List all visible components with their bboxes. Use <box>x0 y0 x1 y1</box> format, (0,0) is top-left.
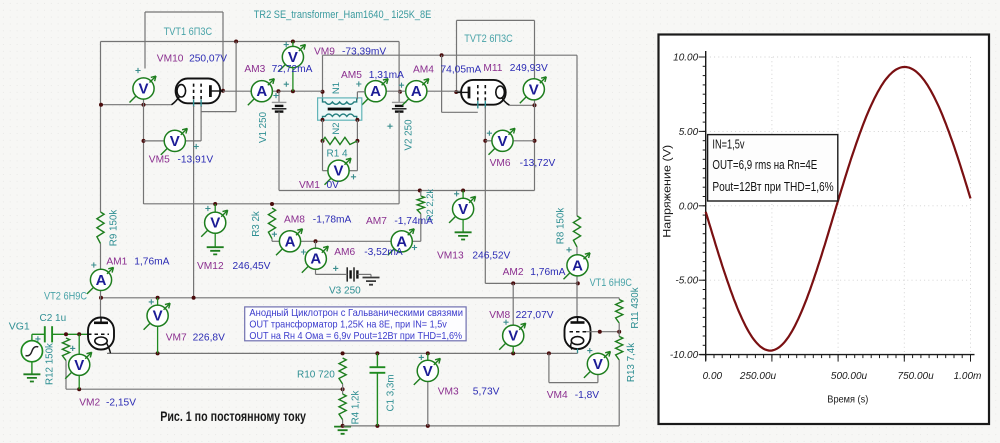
wire: left output bus y=297.8 <box>101 297 619 299</box>
wire: VM9 top stem <box>292 42 294 47</box>
svg-text:A: A <box>96 272 107 289</box>
node: N2 left <box>321 118 325 122</box>
node: grid wire <box>598 330 602 334</box>
node: V1 top <box>276 89 280 93</box>
voltmeter VM8 <box>499 323 526 350</box>
battery V2 250 <box>392 92 407 112</box>
wire: V2 bottom drop <box>398 112 400 204</box>
wire: VM5 right lead to g pin <box>185 140 201 142</box>
wire: AM8 to AM7 <box>301 240 392 242</box>
node: R1 left <box>321 139 325 143</box>
wire: VM10 bottom drop to rail <box>143 99 145 204</box>
wire: V1 bottom drop <box>278 112 280 191</box>
svg-text:R3 2k: R3 2k <box>251 211 262 237</box>
wire: M11 to TVT2 plate <box>456 20 458 92</box>
oscilloscope chart frame <box>659 35 990 425</box>
svg-text:1.00m: 1.00m <box>954 371 982 382</box>
voltmeter VM10 <box>130 76 157 103</box>
wire: VG1 ground stem <box>31 362 33 374</box>
resistor R12 150k <box>62 338 69 361</box>
svg-text:-73,39mV: -73,39mV <box>342 47 386 58</box>
svg-text:750.00u: 750.00u <box>898 371 935 382</box>
wire: TVT1 cathode link y=104.7 <box>101 104 172 106</box>
node: VM9 top on B+ rail <box>291 40 295 44</box>
vacuum tube VT2 (6N9S, driver) <box>88 318 114 354</box>
svg-text:1,31mA: 1,31mA <box>369 70 404 81</box>
ground at V3 <box>363 278 380 285</box>
wire: VM3 bottom stem <box>427 382 429 426</box>
svg-text:-3,52mA: -3,52mA <box>364 247 403 258</box>
svg-text:VM13: VM13 <box>437 251 464 262</box>
node: VM3 top <box>426 351 430 355</box>
svg-text:V3 250: V3 250 <box>329 286 361 297</box>
capacitor C1 3,3m <box>370 367 386 373</box>
svg-text:TVT1 6П3С: TVT1 6П3С <box>164 26 213 38</box>
svg-text:A: A <box>411 83 422 100</box>
wire: VT1 grid to R11/R13 node <box>586 331 619 333</box>
svg-text:72,72mA: 72,72mA <box>272 64 313 75</box>
wire: VM5 left lead <box>144 140 165 142</box>
wire: TVT2 cathode drop to V1 rail <box>534 100 536 191</box>
svg-text:A: A <box>285 233 296 250</box>
wire: TVT2 cathode to M11 <box>509 104 535 106</box>
svg-text:500.00u: 500.00u <box>831 371 868 382</box>
wire: VT2 cathode exit <box>107 352 110 354</box>
svg-text:AM7: AM7 <box>366 216 387 227</box>
svg-text:TVT2 6П3С: TVT2 6П3С <box>464 33 513 45</box>
svg-text:249,93V: 249,93V <box>510 63 548 74</box>
ammeter AM2 <box>564 253 591 279</box>
voltmeter VM4 <box>584 351 611 378</box>
voltmeter VM6 <box>489 128 516 155</box>
vacuum tube TVT1 (6P3S, output) <box>172 79 224 108</box>
note box: amplifier summary <box>245 307 466 342</box>
wire: AM4 to TVT2 plate <box>427 90 468 92</box>
node: AM2 bottom <box>576 281 580 285</box>
svg-text:N2: N2 <box>331 122 342 134</box>
svg-text:VT1 6H9C: VT1 6H9C <box>590 277 632 289</box>
wire: VM8 top stem <box>512 283 514 325</box>
chart gridlines <box>706 57 971 355</box>
svg-text:VM10: VM10 <box>157 54 184 65</box>
wire: cathode bus y=353.4 <box>108 352 578 354</box>
voltmeter VM7 <box>144 303 171 330</box>
voltmeter VM13 <box>449 196 476 223</box>
svg-text:1,76mA: 1,76mA <box>134 257 169 268</box>
voltmeter VM3 <box>414 358 441 385</box>
wire: R3 to AM8 <box>271 239 273 242</box>
svg-text:V: V <box>593 356 603 373</box>
node: V2 top / anode row junction <box>398 90 402 94</box>
node: VM2 top <box>77 332 81 336</box>
wire: C1 top lead <box>376 353 378 366</box>
wire: TVT1 plate rail y=55 <box>323 54 578 56</box>
node: AM1 bottom / VT2 plate <box>99 296 103 300</box>
node: R11/R13 junction <box>617 330 621 334</box>
svg-text:C2 1u: C2 1u <box>40 313 67 324</box>
svg-text:V1 250: V1 250 <box>258 111 269 143</box>
vacuum tube VT1 (6N9S, driver) <box>565 317 591 353</box>
svg-text:V: V <box>497 133 507 150</box>
wire: VM13 ground stem <box>462 220 464 232</box>
svg-text:V: V <box>210 215 220 232</box>
ground below VM13 <box>455 232 472 239</box>
svg-text:VM4: VM4 <box>547 390 568 401</box>
wire: AM2 to VT1 plate <box>576 276 578 318</box>
node: VM13 top <box>461 189 465 193</box>
wire: top B+ rail (TVT2 plate node) <box>101 41 400 43</box>
svg-text:VG1: VG1 <box>9 320 30 332</box>
svg-text:A: A <box>310 251 321 268</box>
svg-text:OUT трансформатор 1,25K на 8Е,: OUT трансформатор 1,25K на 8Е, при IN= 1… <box>249 319 447 331</box>
wire: VM6 right lead <box>513 140 535 142</box>
svg-text:250,07V: 250,07V <box>189 54 227 65</box>
wire: VG1 to C2 <box>32 333 44 335</box>
node: TVT2 g2 tap <box>440 53 444 57</box>
svg-text:R4 1,2k: R4 1,2k <box>351 391 362 425</box>
wire: N1 to AM5 <box>357 91 365 93</box>
svg-text:R12 150k: R12 150k <box>45 343 56 385</box>
wire: M11 + lead <box>534 20 536 78</box>
wire: V3 to ground <box>357 273 371 275</box>
wire: TVT1 g2 link <box>201 111 236 113</box>
chart axes <box>705 51 707 361</box>
wire: AM7 to R2 <box>420 214 422 242</box>
node: R2 top <box>418 189 422 193</box>
wire: VM1 left drop <box>322 141 324 171</box>
wire: R8 to AM2 <box>576 247 578 255</box>
ammeter AM6 <box>302 246 329 273</box>
svg-text:C1 3,3m: C1 3,3m <box>386 374 397 411</box>
svg-text:VM5: VM5 <box>149 155 170 166</box>
wire: VM4 loop bottom <box>549 382 598 384</box>
wire: N1 left pin <box>322 55 324 99</box>
wire: left drop to R9 <box>100 42 102 213</box>
svg-text:R13 7,4k: R13 7,4k <box>626 343 637 382</box>
wire: VM1 right lead <box>349 170 357 172</box>
svg-text:AM2: AM2 <box>503 267 524 278</box>
wire: VM4 loop down <box>548 353 550 382</box>
node: VM4 tap <box>547 351 551 355</box>
node: VM6 right <box>533 139 537 143</box>
ground below VM12 <box>207 247 224 254</box>
svg-text:V: V <box>153 308 163 325</box>
wire: R2 top lead <box>420 191 422 197</box>
svg-text:N1: N1 <box>331 82 342 94</box>
wire: bottom bus y=425.9 <box>343 425 620 427</box>
svg-text:VT2 6H9C: VT2 6H9C <box>44 290 87 302</box>
wire: V1 minus rail y=190.5 <box>279 190 535 192</box>
wire: VM1 right drop <box>356 141 358 171</box>
svg-text:AM4: AM4 <box>413 65 434 76</box>
svg-text:V: V <box>423 363 433 380</box>
wire: V3 ground stem <box>370 274 372 276</box>
battery V1 250 <box>272 91 287 111</box>
resistor R13 7,4k <box>616 336 623 360</box>
svg-text:AM8: AM8 <box>284 215 305 226</box>
svg-text:VM9: VM9 <box>314 47 335 58</box>
ammeter AM4 <box>402 79 429 106</box>
svg-text:Время (s): Время (s) <box>827 394 868 406</box>
wire: drop to battery V2 top <box>398 42 400 102</box>
node: cathode/R9 branch <box>99 103 103 107</box>
svg-text:V: V <box>508 328 518 345</box>
svg-text:74,05mA: 74,05mA <box>441 65 482 76</box>
ground at R4 <box>334 427 351 434</box>
svg-text:V: V <box>138 81 148 98</box>
svg-text:IN=1,5v: IN=1,5v <box>712 136 744 151</box>
node: AM6 tap <box>314 239 318 243</box>
voltmeter VM9 <box>279 45 306 72</box>
voltmeter VM12 <box>201 210 228 237</box>
voltmeter VM1 <box>325 158 352 185</box>
resistor R9 150k <box>97 212 104 244</box>
sine source VG1 <box>21 341 42 362</box>
svg-text:VM3: VM3 <box>438 387 459 398</box>
wire: TVT1 plate vertical <box>222 12 224 91</box>
wire: VM4 bottom lead <box>597 375 599 383</box>
svg-text:V: V <box>458 201 468 218</box>
svg-text:Рис. 1 по постоянному току: Рис. 1 по постоянному току <box>160 408 306 424</box>
wire: R9 to AM1 <box>100 244 102 270</box>
voltmeter VM2 <box>65 352 92 379</box>
wire: VG1 top stem <box>31 334 33 340</box>
voltmeter VM5 <box>161 128 188 155</box>
node: R1 right <box>355 139 359 143</box>
wire: VM13 stem <box>462 191 464 199</box>
node: VM8 bottom <box>511 351 515 355</box>
node: N1/anode row <box>321 90 325 94</box>
wire: N2 right down <box>356 120 358 141</box>
ammeter AM8 <box>276 229 303 256</box>
ammeter AM3 <box>248 79 274 106</box>
node: VM2 bottom <box>77 387 81 391</box>
wire: R11-R13 link <box>618 323 620 336</box>
wire: TVT1 measure box top <box>145 11 223 13</box>
node: VM9 bottom <box>291 89 295 93</box>
svg-text:VM2: VM2 <box>79 398 100 409</box>
svg-text:VM12: VM12 <box>197 261 224 272</box>
svg-text:10.00: 10.00 <box>673 53 698 64</box>
wire: VM2 top stem <box>78 334 80 354</box>
node: VM10 bottom <box>142 103 146 107</box>
svg-text:OUT=6,9 rms на Rn=4E: OUT=6,9 rms на Rn=4E <box>712 157 817 172</box>
vacuum tube TVT2 (6P3S, output) <box>457 80 510 109</box>
wire: TVT1 g2 pin down <box>200 106 202 141</box>
node: VM5 left <box>142 139 146 143</box>
wire: VM6 left lead <box>485 140 492 142</box>
wire: C1 bottom lead <box>376 373 378 426</box>
svg-text:A: A <box>256 83 267 100</box>
svg-text:0.00: 0.00 <box>679 201 699 212</box>
wire: VM3 top stem <box>427 353 429 360</box>
wire: VM1 left lead <box>323 170 328 172</box>
svg-text:A: A <box>370 83 381 100</box>
svg-text:-1,8V: -1,8V <box>575 390 600 401</box>
wire: VM7 top stem <box>157 298 159 305</box>
wire: AM1 to VT2 plate <box>100 290 102 318</box>
wire: M11 top link <box>457 19 535 21</box>
wire: TVT1 g1 to output bus <box>193 106 195 298</box>
chart annotation box <box>708 135 838 201</box>
wire: R12 bottom drop <box>65 361 67 390</box>
svg-text:V: V <box>333 163 343 180</box>
svg-text:-1,74mA: -1,74mA <box>394 216 433 227</box>
wire: AM6 to V3 <box>316 273 342 275</box>
svg-text:V2 250: V2 250 <box>404 119 415 151</box>
sine waveform trace <box>706 67 971 351</box>
svg-text:AM5: AM5 <box>341 70 362 81</box>
svg-text:246,45V: 246,45V <box>233 261 271 272</box>
svg-text:Анодный Циклотрон с Гальваниче: Анодный Циклотрон с Гальваническими связ… <box>249 308 463 319</box>
resistor R2 2,2k <box>417 196 424 214</box>
transformer TR2 <box>318 98 362 120</box>
svg-text:M11: M11 <box>483 63 502 74</box>
battery V3 250 <box>347 267 357 281</box>
svg-text:VM8: VM8 <box>489 310 510 321</box>
wire: feedback rail y=389.2 <box>66 388 343 390</box>
wire: VM9 bottom stem <box>292 68 294 92</box>
svg-text:VM6: VM6 <box>490 158 511 169</box>
resistor R10 720 <box>339 358 346 384</box>
svg-text:Pout=12Вт при THD=1,6%: Pout=12Вт при THD=1,6% <box>712 179 834 194</box>
node: N2 right <box>355 118 359 122</box>
node: VM3 bottom <box>426 424 430 428</box>
svg-text:227,07V: 227,07V <box>516 310 554 321</box>
svg-text:246,52V: 246,52V <box>472 251 510 262</box>
svg-text:-5.00: -5.00 <box>675 276 698 287</box>
wire: VM7 bottom stem <box>157 326 159 353</box>
svg-text:-1,78mA: -1,78mA <box>313 215 352 226</box>
wire: TVT2 g2 drop <box>441 55 443 112</box>
svg-text:V: V <box>74 357 84 374</box>
svg-text:VM1: VM1 <box>299 180 320 191</box>
wire: R10-R4 link <box>342 384 344 394</box>
resistor R4 1,2k <box>339 394 346 420</box>
capacitor C2 1u <box>45 326 52 342</box>
svg-text:AM3: AM3 <box>244 64 265 75</box>
svg-text:5.00: 5.00 <box>679 127 699 138</box>
wire: plate to AM3 <box>223 90 251 92</box>
node: TVT1 plate <box>221 89 225 93</box>
svg-text:-13,72V: -13,72V <box>520 158 556 169</box>
node: R12 top <box>64 332 68 336</box>
node: VM7 bottom <box>156 351 160 355</box>
svg-text:-10.00: -10.00 <box>670 350 699 361</box>
wire: VM12 to ground <box>214 234 216 247</box>
wire: V3 left lead <box>341 273 347 275</box>
svg-text:R8 150k: R8 150k <box>555 208 566 245</box>
wire: AM6 bottom stem <box>315 269 317 274</box>
ammeter AM1 <box>87 267 114 294</box>
svg-text:0.00: 0.00 <box>703 371 723 382</box>
ground below VG1 <box>23 374 40 381</box>
wire: VM12 stem <box>214 204 216 212</box>
resistor R11 430k <box>616 300 623 324</box>
wire: VM10 top lead <box>144 12 146 69</box>
ammeter AM7 <box>388 229 415 256</box>
node: C1 top <box>375 351 379 355</box>
svg-text:-13,91V: -13,91V <box>178 155 214 166</box>
wire: TVT1 g2 drop <box>235 42 237 112</box>
svg-text:OUT на Rн 4 Ома = 6,9v Pout=12: OUT на Rн 4 Ома = 6,9v Pout=12Вт при THD… <box>249 331 462 342</box>
svg-text:AM1: AM1 <box>106 257 127 268</box>
wire: R13 to bottom bus <box>618 360 620 426</box>
wire: N2 left down <box>322 120 324 141</box>
svg-text:V: V <box>170 133 180 150</box>
node: TVT2 cathode <box>533 103 537 107</box>
node: VM6 left <box>483 139 487 143</box>
wire: V2 minus rail y=203.8 <box>144 203 400 205</box>
wire: R4 to ground <box>342 420 344 426</box>
wire: right bus y=283.4 <box>485 282 578 284</box>
node: R3 top <box>270 202 274 206</box>
wire: N1 right pin up <box>356 92 358 100</box>
wire: TVT2 g2 link <box>442 111 478 113</box>
wire: TVT2 g1 to right bus <box>484 107 486 283</box>
wire: AM5 to AM4 <box>386 90 405 92</box>
node: VM12 top <box>213 202 217 206</box>
svg-text:R10 720: R10 720 <box>297 370 335 381</box>
svg-text:A: A <box>572 257 583 274</box>
svg-text:VM7: VM7 <box>166 333 187 344</box>
resistor R1 4 <box>323 137 358 144</box>
wire: R3-AM8 link <box>272 240 280 242</box>
svg-text:AM6: AM6 <box>334 247 355 258</box>
node: R10/R4 junction <box>341 387 345 391</box>
svg-text:0V: 0V <box>327 180 340 191</box>
voltmeter M11 <box>520 77 547 104</box>
node: C1 bottom <box>375 424 379 428</box>
svg-text:TR2 SE_transformer_Ham1640_ 1i: TR2 SE_transformer_Ham1640_ 1i25K_8E <box>254 9 431 21</box>
svg-text:R11 430k: R11 430k <box>630 287 641 328</box>
svg-text:1,76mA: 1,76mA <box>530 267 565 278</box>
ammeter AM5 <box>362 79 389 106</box>
svg-text:226,8V: 226,8V <box>193 333 225 344</box>
wire: VM8 bottom stem <box>512 346 514 353</box>
node: ground bus left end <box>341 424 345 428</box>
svg-text:-2,15V: -2,15V <box>106 398 136 409</box>
wire: bus corner to R11 <box>618 298 620 300</box>
node: TVT1 g1 joins bus <box>192 296 196 300</box>
wire: AM6 top stem <box>315 241 317 248</box>
svg-text:250.00u: 250.00u <box>739 371 777 382</box>
svg-text:R1 4: R1 4 <box>327 149 349 160</box>
svg-text:V: V <box>529 81 539 98</box>
node: VM7 top <box>156 296 160 300</box>
node: VM8 top <box>511 281 515 285</box>
node: TVT1 g2 tap on B+ rail <box>234 40 238 44</box>
svg-text:5,73V: 5,73V <box>473 387 500 398</box>
svg-text:Напряжение (V): Напряжение (V) <box>661 145 673 238</box>
wire: AM3 to N1 <box>273 90 323 92</box>
svg-text:R9 150k: R9 150k <box>109 210 120 247</box>
wire: C2 to VT2 grid <box>52 333 88 335</box>
wire: VM2 bottom stem <box>78 375 80 389</box>
node: TVT2 plate <box>454 90 458 94</box>
node: R10 top <box>341 351 345 355</box>
wire: right drop to R8 <box>576 55 578 216</box>
resistor R3 2k <box>268 208 275 239</box>
resistor R8 150k <box>573 216 580 247</box>
wire: AM7 right lead <box>412 240 421 242</box>
